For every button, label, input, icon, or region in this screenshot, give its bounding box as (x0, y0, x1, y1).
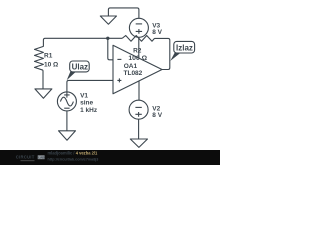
svg-text:TL082: TL082 (124, 70, 143, 77)
svg-text:Izlaz: Izlaz (176, 44, 193, 53)
svg-text:sine: sine (80, 99, 93, 106)
svg-text:8 V: 8 V (152, 112, 162, 119)
svg-text:100 Ω: 100 Ω (128, 55, 147, 62)
svg-text:CIRCUIT: CIRCUIT (16, 155, 35, 160)
svg-text:10 Ω: 10 Ω (44, 62, 58, 69)
svg-text:LAB: LAB (38, 156, 45, 160)
svg-text:8 V: 8 V (152, 29, 162, 36)
svg-text:Ulaz: Ulaz (72, 62, 88, 71)
svg-text:R2: R2 (133, 48, 142, 55)
svg-text:R1: R1 (44, 53, 53, 60)
svg-text:mladjosmilic / 4 vezba 2/1: mladjosmilic / 4 vezba 2/1 (48, 151, 99, 156)
svg-text:V1: V1 (80, 92, 88, 99)
svg-text:http://circuitlab.com/c7ma8j3: http://circuitlab.com/c7ma8j3 (48, 157, 99, 161)
svg-text:1 kHz: 1 kHz (80, 107, 98, 114)
